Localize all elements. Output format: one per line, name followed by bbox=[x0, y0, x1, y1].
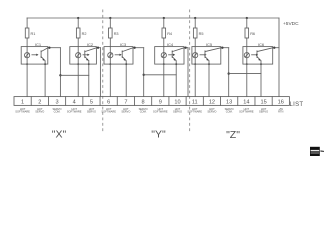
junction IC4 output node bbox=[184, 47, 186, 49]
wire IC1 output (collector) bbox=[48, 47, 61, 49]
wire diode cathode to terminal bbox=[77, 64, 79, 97]
svg-text:IC1: IC1 bbox=[35, 42, 42, 47]
svg-text:IC5: IC5 bbox=[206, 42, 213, 47]
junction rail tap node for R5 bbox=[194, 17, 196, 19]
op-amp IC2 box bbox=[70, 47, 97, 65]
svg-text:14: 14 bbox=[243, 100, 249, 106]
node diode leg at IC3 box bottom bbox=[109, 63, 111, 65]
wire IC1 output drop to terminal bbox=[59, 48, 61, 97]
svg-text:11: 11 bbox=[192, 100, 198, 106]
node emitter at IC2 box bottom bbox=[88, 63, 90, 65]
svg-text:SOFTWARE: SOFTWARE bbox=[153, 110, 168, 114]
svg-text:6: 6 bbox=[107, 100, 110, 106]
svg-text:"X": "X" bbox=[52, 129, 67, 141]
op-amp IC4 box bbox=[155, 47, 184, 65]
wire dashed separator X/Y bbox=[102, 10, 104, 132]
junction rail tap node for R3 bbox=[109, 17, 111, 19]
wire diode cathode to terminal bbox=[26, 64, 28, 97]
svg-text:15: 15 bbox=[260, 100, 266, 106]
wire IC2 output drop to terminal bbox=[99, 48, 101, 97]
wire terminal divider 5/6 bbox=[99, 97, 101, 106]
wire IC5 output (collector) bbox=[221, 47, 229, 49]
resistor R6 bbox=[245, 28, 249, 38]
node emitter at IC4 box bottom bbox=[175, 63, 177, 65]
junction tee node group Z bbox=[228, 72, 230, 74]
wire resistor R5 to IC5 pin 1 bbox=[194, 38, 196, 47]
diode D5 inside IC5 bbox=[194, 47, 196, 65]
diode D1 inside IC1 bbox=[26, 47, 28, 65]
op-amp IC1 box bbox=[21, 47, 48, 65]
wire rail to resistor R6 bbox=[246, 18, 248, 28]
wire rail to resistor R4 bbox=[163, 18, 165, 28]
node emitter at IC1 box bottom bbox=[44, 63, 46, 65]
svg-text:12: 12 bbox=[209, 100, 215, 106]
svg-text:+5VDC: +5VDC bbox=[283, 21, 299, 27]
node diode leg at IC2 box bottom bbox=[77, 63, 79, 65]
diode D2 inside IC2 bbox=[77, 47, 79, 65]
svg-text:COM.: COM. bbox=[226, 110, 233, 114]
wire terminal divider 2/3 bbox=[47, 97, 49, 106]
svg-text:16: 16 bbox=[278, 100, 284, 106]
wire dashed separator Y/Z bbox=[189, 10, 191, 132]
wire resistor R1 to IC1 pin 1 bbox=[26, 38, 28, 47]
svg-text:R3: R3 bbox=[114, 32, 119, 36]
opto arrow inside IC3 bbox=[115, 54, 119, 56]
svg-text:4: 4 bbox=[73, 100, 76, 106]
opto arrow inside IC2 bbox=[83, 54, 87, 56]
resistor R1 bbox=[25, 28, 29, 38]
wire emitter Q6 to terminal bbox=[260, 61, 262, 97]
svg-text:COM.: COM. bbox=[140, 110, 147, 114]
wire terminal divider 15/16 bbox=[271, 97, 273, 106]
wire diode cathode to terminal bbox=[194, 64, 196, 97]
svg-text:R6: R6 bbox=[250, 32, 255, 36]
svg-text:IC6: IC6 bbox=[258, 42, 265, 47]
wire terminal divider 6/7 bbox=[116, 97, 118, 106]
wire resistor R2 to IC2 pin 1 bbox=[77, 38, 79, 47]
transistor Q4 inside IC4 bbox=[171, 51, 173, 58]
junction tee node group Y bbox=[143, 74, 145, 76]
svg-text:R2: R2 bbox=[82, 32, 87, 36]
wire IC4 output drop to terminal bbox=[187, 48, 189, 97]
wire tee bus group X bbox=[60, 74, 88, 76]
svg-text:R4: R4 bbox=[167, 32, 172, 36]
wire rail to resistor R2 bbox=[77, 18, 79, 28]
node emitter at IC3 box bottom bbox=[125, 63, 127, 65]
opto arrow inside IC6 bbox=[252, 54, 256, 56]
node diode leg at IC6 box bottom bbox=[246, 63, 248, 65]
wire resistor R6 to IC6 pin 1 bbox=[246, 38, 248, 47]
node diode leg at IC5 box bottom bbox=[194, 63, 196, 65]
transistor Q3 inside IC3 bbox=[121, 51, 123, 58]
resistor R4 bbox=[162, 28, 166, 38]
resistor R5 bbox=[193, 28, 197, 38]
svg-text:SERVO: SERVO bbox=[87, 110, 96, 114]
wire +5VDC top rail bbox=[27, 17, 279, 19]
svg-text:SOFTWARE: SOFTWARE bbox=[101, 110, 116, 114]
junction rail tap node for R4 bbox=[163, 17, 165, 19]
node emitter at IC5 box bottom bbox=[208, 63, 210, 65]
wire terminal divider 9/10 bbox=[168, 97, 170, 106]
svg-text:SERVO: SERVO bbox=[207, 110, 216, 114]
transistor Q6 inside IC6 bbox=[256, 51, 258, 58]
op-amp IC6 box bbox=[243, 47, 273, 65]
wire resistor R3 to IC3 pin 1 bbox=[109, 38, 111, 47]
svg-text:SERVO: SERVO bbox=[259, 110, 268, 114]
opto arrow inside IC5 bbox=[200, 54, 204, 56]
wire rail to resistor R5 bbox=[194, 18, 196, 28]
wire resistor R4 to IC4 pin 1 bbox=[163, 38, 165, 47]
wire diode cathode to terminal bbox=[163, 64, 165, 97]
transistor Q1 inside IC1 bbox=[40, 51, 42, 58]
svg-text:IC3: IC3 bbox=[120, 42, 127, 47]
junction rail tap node for R2 bbox=[77, 17, 79, 19]
svg-text:SOFTWARE: SOFTWARE bbox=[239, 110, 254, 114]
opto arrow inside IC1 bbox=[32, 54, 36, 56]
opto arrow inside IC4 bbox=[169, 54, 173, 56]
wire IC3 output drop to terminal bbox=[143, 48, 145, 97]
wire IC2 output (collector) bbox=[96, 47, 100, 49]
wire tee bus group Y bbox=[144, 74, 177, 76]
node emitter at IC6 box bottom bbox=[260, 63, 262, 65]
wire IC3 output (collector) bbox=[133, 47, 144, 49]
svg-text:5: 5 bbox=[90, 100, 93, 106]
node diode leg at IC1 box bottom bbox=[26, 63, 28, 65]
wire rail to resistor R1 bbox=[26, 18, 28, 28]
svg-text:"Y": "Y" bbox=[151, 129, 166, 141]
junction IC3 output node bbox=[133, 47, 135, 49]
node diode leg at IC4 box bottom bbox=[163, 63, 165, 65]
svg-text:9: 9 bbox=[159, 100, 162, 106]
connector terminal strip outline bbox=[14, 97, 289, 106]
wire terminal divider 4/5 bbox=[82, 97, 84, 106]
wire terminal divider 7/8 bbox=[133, 97, 135, 106]
svg-text:10: 10 bbox=[174, 100, 180, 106]
wire tee bus group Z bbox=[229, 73, 261, 75]
wire IC4 output (collector) bbox=[184, 47, 188, 49]
junction IC6 output node bbox=[273, 47, 275, 49]
svg-text:SERVO: SERVO bbox=[35, 110, 44, 114]
svg-text:RTN: RTN bbox=[278, 110, 283, 114]
logo block bottom right bbox=[310, 147, 320, 156]
wire terminal divider 3/4 bbox=[65, 97, 67, 106]
transistor Q2 inside IC2 bbox=[84, 51, 86, 58]
svg-text:1: 1 bbox=[21, 100, 24, 106]
svg-text:2: 2 bbox=[38, 100, 41, 106]
svg-text:SOFTWARE: SOFTWARE bbox=[15, 110, 30, 114]
wire terminal divider 14/15 bbox=[254, 97, 256, 106]
wire terminal divider 10/11 bbox=[185, 97, 187, 106]
resistor R3 bbox=[109, 28, 113, 38]
svg-text:IC4: IC4 bbox=[167, 42, 174, 47]
op-amp IC3 box bbox=[104, 47, 133, 65]
junction IC5 output node bbox=[221, 47, 223, 49]
wire IC6 output (collector) bbox=[273, 47, 279, 49]
junction rail tap node for R6 bbox=[246, 17, 248, 19]
node +5VDC rail right drop to terminal 16 bbox=[278, 18, 280, 97]
wire terminal divider 1/2 bbox=[30, 97, 32, 106]
wire rail to resistor R3 bbox=[109, 18, 111, 28]
wire emitter Q2 to terminal bbox=[88, 61, 90, 97]
svg-text:LIST: LIST bbox=[290, 102, 304, 108]
wire diode cathode to terminal bbox=[109, 64, 111, 97]
svg-text:SOFTWARE: SOFTWARE bbox=[67, 110, 82, 114]
svg-text:IC2: IC2 bbox=[87, 42, 94, 47]
svg-text:R1: R1 bbox=[31, 32, 36, 36]
svg-text:SERVO: SERVO bbox=[173, 110, 182, 114]
wire IC5 output drop to terminal bbox=[228, 48, 230, 97]
svg-text:R5: R5 bbox=[199, 32, 204, 36]
svg-text:COM.: COM. bbox=[54, 110, 61, 114]
svg-text:"Z": "Z" bbox=[226, 129, 240, 141]
transistor Q5 inside IC5 bbox=[204, 51, 206, 58]
wire diode cathode to terminal bbox=[246, 64, 248, 97]
junction IC1 output node bbox=[48, 47, 50, 49]
diode D4 inside IC4 bbox=[163, 47, 165, 65]
svg-text:SERVO: SERVO bbox=[121, 110, 130, 114]
svg-text:3: 3 bbox=[55, 100, 58, 106]
diode D6 inside IC6 bbox=[246, 47, 248, 65]
resistor R2 bbox=[76, 28, 80, 38]
wire emitter Q4 to terminal bbox=[175, 61, 177, 97]
svg-text:8: 8 bbox=[142, 100, 145, 106]
wire terminal divider 11/12 bbox=[202, 97, 204, 106]
junction tee node group X bbox=[59, 74, 61, 76]
op-amp IC5 box bbox=[192, 47, 221, 65]
wire emitter Q5 to terminal bbox=[208, 61, 210, 97]
wire terminal divider 13/14 bbox=[237, 97, 239, 106]
junction IC2 output node bbox=[97, 47, 99, 49]
wire terminal divider 8/9 bbox=[151, 97, 153, 106]
svg-text:13: 13 bbox=[226, 100, 232, 106]
svg-text:7: 7 bbox=[124, 100, 127, 106]
wire emitter Q1 to terminal bbox=[44, 61, 46, 97]
svg-text:SOFTWARE: SOFTWARE bbox=[187, 110, 202, 114]
wire terminal divider 12/13 bbox=[220, 97, 222, 106]
wire emitter Q3 to terminal bbox=[125, 61, 127, 97]
diode D3 inside IC3 bbox=[109, 47, 111, 65]
